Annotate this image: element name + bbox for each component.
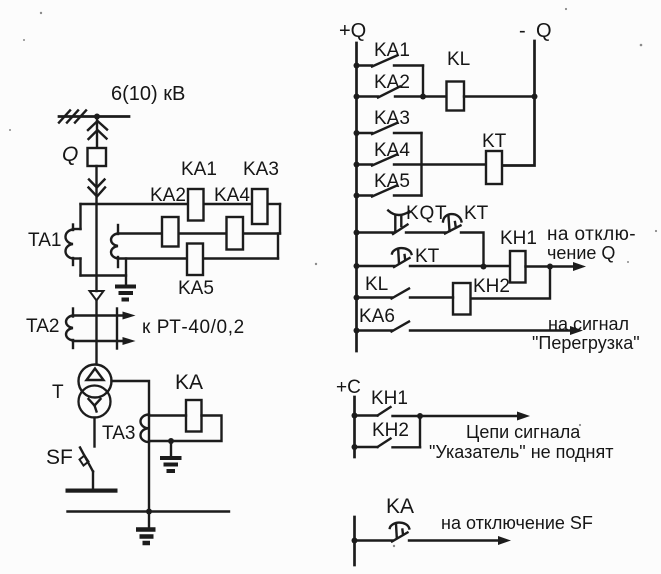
svg-text:-: - [519,20,526,42]
wire middle secondary y=233.5 [118,232,162,234]
relay coil KH1 [510,251,526,283]
svg-text:KA5: KA5 [374,171,410,192]
transformer T [79,365,112,418]
svg-text:KA3: KA3 [374,108,410,129]
wire KQT-KT series [406,231,446,233]
svg-text:T: T [52,382,64,403]
svg-text:"Перегрузка": "Перегрузка" [532,333,640,353]
ground below KA loop [160,441,182,471]
contact KA6 [354,306,574,334]
contact KA2 [354,72,447,100]
relay coil KA1 [188,189,204,221]
wire top secondary y=204 [81,203,189,205]
wire row A to row B [461,233,484,267]
svg-text:"Указатель" не поднят: "Указатель" не поднят [429,442,613,462]
wire loop left vertical [79,204,81,229]
busbar 6(10)kV [59,115,129,118]
wire loop bottom y=275.5 [81,274,127,276]
svg-text:Цепи сигнала: Цепи сигнала [466,422,581,442]
contact KA (arc) [352,523,410,544]
transformer CT2 secondary [111,225,118,267]
ground below CT2 [115,259,136,300]
svg-text:KH2: KH2 [372,420,409,441]
contact KA3 [354,108,422,136]
ground below bus [136,512,156,544]
arrow на сигнал [570,326,583,335]
node KH join dot [417,413,423,419]
svg-text:на сигнал: на сигнал [548,314,629,334]
svg-text:KA1: KA1 [181,159,217,180]
relay coil KH2 [453,283,471,315]
relay coil KA5 [187,244,203,276]
disconnector Q box [88,148,107,166]
wire right verticals [279,204,281,234]
wire Q to node [95,166,97,204]
relay coil KA3 [252,189,268,224]
svg-text:Q: Q [536,20,552,42]
relay coil KA2 [162,217,179,247]
wire ground bus [68,510,230,512]
svg-text:TA3: TA3 [102,423,135,444]
svg-text:6(10) кВ: 6(10) кВ [111,83,185,105]
transformer TA2 [66,309,73,349]
svg-text:KT: KT [415,246,440,267]
svg-text:TA1: TA1 [28,230,61,251]
wire KH1 out with arrow [526,265,577,267]
svg-text:KA1: KA1 [374,40,410,61]
wire bus to Q [96,117,98,149]
contact KH1 (signal) [352,388,421,419]
disconnector chevrons up [88,121,107,139]
contact KA1 [354,40,424,69]
relay coil KA [186,400,202,432]
svg-text:на отключение SF: на отключение SF [441,513,593,533]
node bus tap [94,114,100,120]
svg-text:KA4: KA4 [374,140,410,161]
node KA ground tap [168,438,174,444]
wire bottom secondary y=258.5 [118,257,187,259]
svg-text:KL: KL [365,274,388,295]
wire KA rail [353,517,356,565]
wire T to SF [93,418,95,447]
contact KH2 (signal) [352,420,421,450]
disconnector chevrons down [89,180,106,197]
wire KT row B to KH1 [410,265,510,267]
contact KT (series) [443,203,489,234]
svg-text:KT: KT [464,203,489,224]
svg-text:KH2: KH2 [473,276,510,297]
wire KH2 branch [471,267,551,299]
svg-text:KA4: KA4 [214,185,250,206]
svg-text:KA5: KA5 [178,278,214,299]
wire TA2 out bottom with arrow [73,340,124,342]
svg-text:KA: KA [175,371,203,394]
wire KA out with arrow [409,539,501,541]
svg-text:KL: KL [447,49,470,70]
svg-text:KA6: KA6 [359,306,395,327]
svg-text:KA2: KA2 [150,185,186,206]
wire +Q rail [355,43,358,351]
svg-text:+C: +C [336,377,361,398]
wire KA1-KA2 join [422,66,424,97]
svg-text:TA2: TA2 [26,316,59,337]
wire TA1 jogs [73,228,81,230]
wire KL to -Q [464,95,535,97]
svg-text:к РТ-40/0,2: к РТ-40/0,2 [142,317,245,338]
bus hatch marks [59,111,86,123]
contact KA4 [354,140,487,168]
wire +C rail [353,397,356,457]
wire main feeder vertical [95,204,97,291]
transformer TA1 [65,225,73,266]
relay coil KL [447,82,465,111]
contact KQT [354,203,448,236]
relay coil KT [486,151,502,184]
contact KT (row B) [354,246,440,269]
wire TA2 out top with arrow [73,314,124,316]
svg-text:KQT: KQT [406,203,447,224]
earth bar SF [66,489,118,493]
svg-text:чение Q: чение Q [547,243,615,263]
transformer TA2 second line [116,309,118,349]
relay coil KA4 [227,217,244,250]
svg-text:KT: KT [482,131,507,152]
contact KL [354,274,454,301]
svg-text:+Q: +Q [339,20,366,42]
feeder arrow down [90,291,104,301]
wire TA3 to KA [149,414,186,416]
wire KA loop right [149,416,222,442]
svg-text:KH1: KH1 [500,228,537,249]
svg-text:KA: KA [386,495,414,518]
contact KA5 [354,171,422,199]
breaker SF [80,448,94,489]
wire KH1-KH2 join [419,416,421,447]
wire -Q rail [502,41,535,166]
svg-text:SF: SF [46,446,73,469]
svg-text:KA2: KA2 [374,72,410,93]
arrow signal out [420,415,519,417]
svg-text:KH1: KH1 [371,388,408,409]
svg-text:KA3: KA3 [243,159,279,180]
wire KA3-KA5 join [420,133,422,196]
svg-text:на отклю-: на отклю- [547,224,636,245]
wire T to TA3 branch [112,381,150,512]
transformer TA3 [140,415,149,443]
node bus-TA3 junction [146,509,152,515]
svg-text:Q: Q [62,143,78,166]
